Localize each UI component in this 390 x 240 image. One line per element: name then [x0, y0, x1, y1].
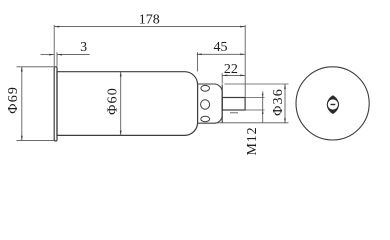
- svg-text:Φ69: Φ69: [6, 86, 21, 114]
- svg-text:M12: M12: [245, 127, 260, 156]
- svg-text:22: 22: [224, 62, 238, 77]
- svg-text:Φ60: Φ60: [106, 87, 121, 115]
- svg-text:45: 45: [214, 40, 228, 55]
- svg-text:Φ36: Φ36: [271, 88, 286, 116]
- svg-text:178: 178: [139, 12, 160, 27]
- svg-text:3: 3: [80, 40, 87, 55]
